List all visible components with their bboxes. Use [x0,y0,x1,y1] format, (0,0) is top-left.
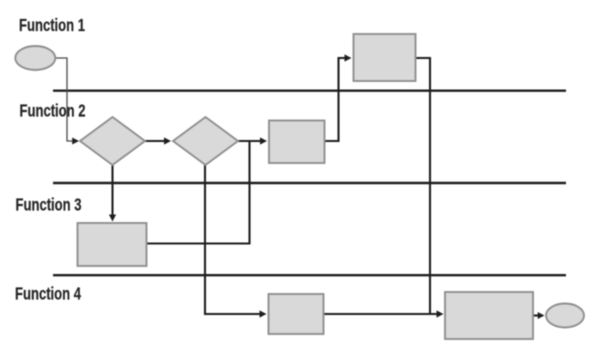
lane divider line 2 [53,182,566,184]
diamond D2 [173,117,238,165]
process P4 [269,294,324,334]
wire diamond D1 down to process P3 [109,165,116,222]
svg-text:Function 2: Function 2 [20,102,86,121]
lane divider line 1 [53,89,566,91]
svg-text:Function 4: Function 4 [15,285,81,304]
wire process P1 to process P2 [325,54,352,141]
wire start-ellipse to diamond D1 [56,58,80,145]
wire process P2 down to lane 4 junction [416,58,431,314]
wire process P4 to process P5 [324,310,444,317]
process P5 [445,292,533,339]
process P2 [354,34,416,81]
diamond D1 [80,117,145,165]
process P3 [78,223,147,266]
process P1 [269,121,325,164]
end ellipse [546,304,584,328]
wire diamond D1 to diamond D2 [146,137,172,144]
svg-text:Function 3: Function 3 [16,196,82,215]
wire process P5 to end ellipse [533,312,545,319]
wire process P3 up to D2-P1 arrow [147,142,250,244]
wire diamond D2 to process P1 [238,137,267,144]
start ellipse [15,46,55,70]
wire diamond D2 down to process P4 [205,165,267,318]
lane divider line 3 [53,274,566,276]
svg-text:Function 1: Function 1 [19,16,85,35]
